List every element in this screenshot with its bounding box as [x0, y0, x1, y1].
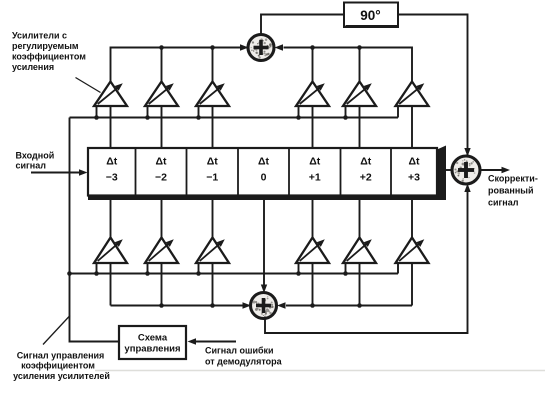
junction dot [343, 271, 348, 276]
wire: A3 gain-control stub [198, 106, 200, 118]
wire: lower-left output bus into S3 with arrow [111, 302, 252, 308]
wire: B2 gain-control stub [147, 263, 149, 274]
variable-gain amplifier A5 (upper row) [296, 82, 329, 107]
variable-gain amplifier A7 (upper row) [396, 82, 429, 107]
variable-gain amplifier B2 (lower row) [145, 238, 178, 264]
svg-text:регулируемым: регулируемым [12, 41, 79, 51]
svg-text:0: 0 [261, 172, 267, 184]
pointer line to upper amplifier A1 [76, 78, 101, 93]
wire: corrected output signal arrow [480, 167, 510, 173]
wire: lower gain-control bus [70, 273, 399, 275]
svg-text:Сигнал управления: Сигнал управления [17, 351, 105, 361]
junction dot [296, 115, 301, 120]
svg-text:Δt: Δt [309, 156, 321, 168]
wire: A6 input from delay-line tap [359, 106, 361, 148]
delay block dt -3 label [106, 156, 118, 184]
wire: A3 input from delay-line tap [212, 106, 214, 148]
summer S2 (output adder) [452, 156, 480, 184]
variable-gain amplifier A1 (upper row) [94, 82, 127, 107]
svg-text:управления: управления [124, 344, 180, 355]
variable-gain amplifier A6 (upper row) [343, 82, 376, 107]
delay block dt -2 label [155, 156, 167, 184]
junction dot [310, 303, 315, 308]
junction dot [159, 303, 164, 308]
svg-text:Δt: Δt [207, 156, 219, 168]
delay line 3D shadow [88, 146, 446, 201]
wire: B6 output stub [359, 263, 361, 306]
label: corrected signal (Skorrektirovannyy signal) [488, 174, 538, 208]
wire: B3 output stub [212, 263, 214, 306]
variable-gain amplifier B7 (lower row) [396, 238, 429, 264]
wire: lower-right output bus into S3 with arrow [277, 302, 412, 308]
svg-text:+2: +2 [360, 172, 372, 184]
label: gain-control signal for amplifiers [13, 351, 110, 382]
wire: delay-line tap down to amplifier B5 [312, 200, 314, 238]
junction dot [310, 45, 315, 50]
faint scan streak [95, 370, 545, 372]
svg-text:Δt: Δt [155, 156, 167, 168]
junction dot [94, 115, 99, 120]
wire: input signal arrow into delay line [31, 169, 88, 175]
wire: vertical from bus to amp A5 apex [312, 48, 314, 82]
svg-text:Схема: Схема [138, 333, 168, 344]
svg-text:коэффициентом: коэффициентом [21, 361, 95, 371]
junction dot [357, 45, 362, 50]
junction dot [67, 271, 72, 276]
wire: B3 gain-control stub [198, 263, 200, 274]
summer S3 (lower adder) [251, 293, 277, 319]
junction dot [196, 271, 201, 276]
svg-text:+3: +3 [408, 172, 420, 184]
junction dot [210, 45, 215, 50]
wire: B7 output stub [411, 263, 413, 306]
label: input signal (Vhodnoy signal) [16, 151, 55, 171]
wire: A7 input from delay-line tap [411, 106, 413, 148]
wire from summer S1 up to 90-degree block [261, 15, 344, 35]
wire: B5 output stub [312, 263, 314, 306]
svg-text:Δt: Δt [408, 156, 420, 168]
svg-text:Δt: Δt [258, 156, 270, 168]
junction dot [94, 271, 99, 276]
delay block dt -1 label [206, 156, 218, 184]
90-degree phase shifter block [344, 3, 398, 28]
svg-text:коэффициентом: коэффициентом [12, 52, 86, 62]
delay line (7 tapped delay blocks) [88, 148, 437, 196]
variable-gain amplifier B6 (lower row) [343, 238, 376, 264]
svg-text:−3: −3 [106, 172, 118, 184]
wire: vertical from bus to amp A2 apex [161, 48, 163, 82]
junction dot [145, 115, 150, 120]
wire: B1 output stub [110, 263, 112, 306]
wire: delay line output to summer S2 [443, 169, 452, 171]
wire: B2 output stub [161, 263, 163, 306]
svg-text:от демодулятора: от демодулятора [205, 357, 283, 367]
wire: A1 input from delay-line tap [110, 106, 112, 148]
svg-text:−2: −2 [155, 172, 167, 184]
wire: center tap direct line into summer S3 (arrow) [261, 200, 267, 293]
control circuit block (Shema upravleniya) [119, 326, 186, 359]
wire: upper gain-control bus [70, 117, 399, 119]
junction dot [159, 45, 164, 50]
wire: vertical from bus to amp A3 apex [212, 48, 214, 82]
wire: gain-control line from control block to both buses [70, 118, 120, 342]
junction dot [343, 115, 348, 120]
svg-text:сигнал: сигнал [16, 161, 47, 171]
junction dot [145, 271, 150, 276]
summer S1 (upper adder) [248, 35, 274, 61]
variable-gain amplifier B1 (lower row) [94, 238, 127, 264]
wire: delay-line tap down to amplifier B2 [161, 200, 163, 238]
junction dot [296, 271, 301, 276]
wire: A1 gain-control stub [96, 106, 98, 118]
svg-text:−1: −1 [206, 172, 218, 184]
delay block dt +2 label [360, 156, 372, 184]
variable-gain amplifier A2 (upper row) [145, 82, 178, 107]
svg-text:Усилители с: Усилители с [12, 31, 67, 41]
svg-text:Δt: Δt [106, 156, 118, 168]
delay block dt 0 label [258, 156, 270, 184]
svg-text:+1: +1 [309, 172, 321, 184]
wire: A2 gain-control stub [147, 106, 149, 118]
variable-gain amplifier B5 (lower row) [296, 238, 329, 264]
wire: A6 gain-control stub [345, 106, 347, 118]
delay block dt +3 label [408, 156, 420, 184]
svg-text:сигнал: сигнал [488, 198, 519, 208]
label: amplifiers with adjustable gain [12, 31, 86, 73]
wire: delay-line tap down to amplifier B3 [212, 200, 214, 238]
wire: upper-left output bus into S1 with arrow [111, 44, 249, 81]
wire: B5 gain-control stub [298, 263, 300, 274]
delay block dt +1 label [309, 156, 321, 184]
junction dot [196, 115, 201, 120]
wire: delay-line tap down to amplifier B6 [359, 200, 361, 238]
variable-gain amplifier B3 (lower row) [196, 238, 229, 264]
wire: error signal arrow into control block [188, 338, 237, 344]
wire: B1 gain-control stub [96, 263, 98, 274]
svg-text:рованный: рованный [488, 186, 534, 196]
svg-text:Входной: Входной [16, 151, 55, 161]
svg-text:90°: 90° [360, 8, 380, 23]
wire: vertical from bus to amp A6 apex [359, 48, 361, 82]
svg-text:усиления: усиления [12, 62, 54, 72]
wire: A7 gain-control stub [397, 106, 399, 118]
svg-text:Сигнал ошибки: Сигнал ошибки [205, 346, 274, 356]
wire: S3 output routed up into S2 bottom (arrow) [265, 184, 471, 334]
variable-gain amplifier A3 (upper row) [196, 82, 229, 107]
wire: delay-line tap down to amplifier B1 [110, 200, 112, 238]
svg-text:Скорректи-: Скорректи- [488, 174, 538, 184]
junction dot [357, 303, 362, 308]
svg-text:усиления усилителей: усиления усилителей [13, 371, 110, 381]
wire from 90-degree block down into summer S2 (arrow) [398, 15, 471, 157]
label: error signal from demodulator [205, 346, 283, 367]
junction dot [210, 303, 215, 308]
pointer line to gain-control line [43, 316, 70, 345]
wire: B6 gain-control stub [345, 263, 347, 274]
wire: B7 gain-control stub [397, 263, 399, 274]
svg-text:Δt: Δt [360, 156, 372, 168]
wire: A5 gain-control stub [298, 106, 300, 118]
wire: delay-line tap down to amplifier B7 [411, 200, 413, 238]
wire: A5 input from delay-line tap [312, 106, 314, 148]
wire: A2 input from delay-line tap [161, 106, 163, 148]
wire: upper-right output bus into S1 with arrow [275, 44, 413, 81]
